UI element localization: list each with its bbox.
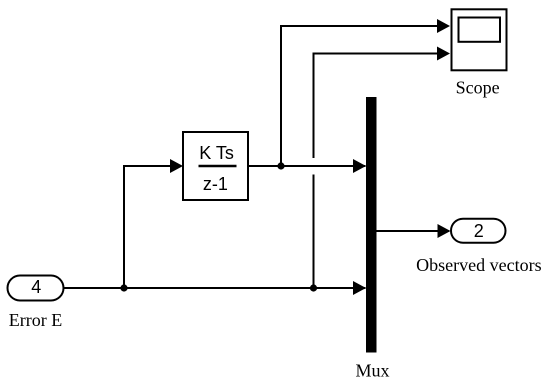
svg-text:K Ts: K Ts (199, 143, 234, 163)
arrowhead into Mux input 2 (353, 281, 366, 295)
Mux bar (366, 97, 377, 353)
svg-text:Error E: Error E (9, 310, 62, 330)
junction B (integrator output branch) (277, 162, 284, 169)
svg-text:Observed vectors: Observed vectors (416, 255, 541, 275)
wire from junction C up to Scope input 2 (lower segment, gap at crossing) (313, 175, 315, 289)
wire from junction B up to Scope input 1 (281, 26, 448, 166)
wire from junction C up to Scope input 2 (upper segment + horizontal) (314, 54, 449, 159)
arrowhead into Scope input 2 (437, 47, 450, 61)
arrowhead into outport 2 (438, 224, 451, 238)
svg-text:4: 4 (31, 277, 41, 297)
inport 4 oval (8, 276, 64, 301)
integrator fraction bar (199, 165, 237, 167)
scope block U1 outer box (452, 9, 507, 70)
wire from inport 4 to Mux input 2 (64, 287, 366, 289)
wire from junction A up and into K Ts block (124, 166, 181, 288)
junction C (Error E to scope branch) (310, 284, 317, 291)
junction A (Error E branch) (120, 284, 127, 291)
wire from K Ts output to Mux input 1 (248, 165, 366, 167)
svg-text:2: 2 (474, 221, 484, 241)
discrete integrator block K Ts/(z-1) box (183, 132, 248, 200)
svg-text:Scope: Scope (456, 78, 500, 98)
wire from Mux output to outport 2 (377, 230, 450, 232)
arrowhead into K Ts block (170, 159, 183, 173)
arrowhead into Scope input 1 (437, 19, 450, 33)
scope block U1 screen (459, 18, 501, 42)
arrowhead into Mux input 1 (353, 159, 366, 173)
svg-text:Mux: Mux (355, 361, 389, 381)
svg-text:z-1: z-1 (203, 174, 228, 194)
outport 2 oval (451, 219, 506, 243)
